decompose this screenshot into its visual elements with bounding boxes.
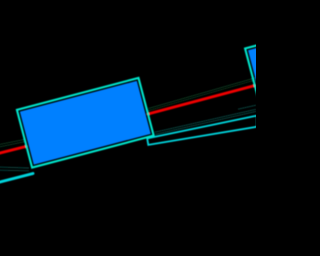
J1 courtyard outline	[245, 37, 308, 118]
trace A top-layer (red) U1 right edge to J1 left edge	[148, 86, 255, 115]
dim inner trace above red net B	[0, 140, 24, 148]
J1 pad fill	[248, 40, 305, 115]
dim inner trace above cyan net D	[155, 105, 256, 134]
trace D bottom-layer outline (cyan, sketch mode) U1 corner to right edge	[147, 116, 257, 145]
module U1 (large pad, rotated)	[17, 78, 154, 168]
dim inner trace above red net A	[149, 78, 256, 111]
module J1 (right-edge pad, partially off-screen)	[245, 37, 308, 118]
U1 courtyard outline	[17, 78, 154, 168]
dim inner trace above cyan net C	[0, 167, 29, 171]
trace C bottom-layer (cyan) left edge to U1 corner	[0, 174, 33, 183]
trace B top-layer (red) left edge to U1	[0, 146, 26, 153]
U1 pad fill	[20, 81, 151, 165]
background board area	[0, 0, 256, 256]
